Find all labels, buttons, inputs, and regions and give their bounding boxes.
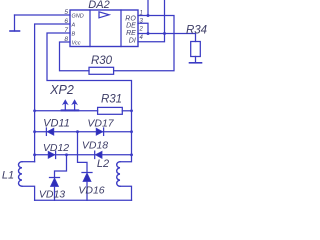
wire DE bbox=[138, 23, 148, 33]
node R31-B bbox=[130, 109, 133, 112]
svg-text:DA2: DA2 bbox=[88, 0, 109, 11]
svg-text:8: 8 bbox=[64, 36, 68, 43]
svg-text:A: A bbox=[71, 23, 76, 29]
svg-text:1: 1 bbox=[140, 10, 143, 16]
wire R34 bottom bbox=[195, 57, 197, 63]
svg-text:L1: L1 bbox=[2, 169, 14, 181]
svg-text:VD13: VD13 bbox=[39, 188, 65, 200]
svg-text:VD16: VD16 bbox=[78, 184, 104, 196]
connector XP2 pin2 bbox=[71, 99, 78, 111]
wire RE bbox=[138, 34, 196, 42]
svg-text:Vcc: Vcc bbox=[72, 41, 81, 47]
node B-VD17 bbox=[130, 130, 133, 133]
svg-text:2: 2 bbox=[139, 27, 144, 33]
wire pin Vcc bbox=[60, 42, 90, 71]
wire pin B bbox=[47, 33, 132, 155]
svg-text:GND: GND bbox=[72, 14, 84, 20]
IC DA2 RS-485 transceiver bbox=[70, 10, 138, 47]
wire R30 right bbox=[114, 16, 174, 71]
svg-text:4: 4 bbox=[140, 35, 144, 41]
svg-text:RE: RE bbox=[126, 30, 136, 37]
svg-text:L2: L2 bbox=[97, 158, 109, 170]
svg-text:R30: R30 bbox=[91, 55, 113, 67]
node mid VD11-VD17 bbox=[76, 130, 79, 133]
svg-text:VD11: VD11 bbox=[43, 118, 70, 130]
node A-XP2 bbox=[33, 109, 36, 112]
resistor R30 bbox=[89, 67, 114, 74]
diode VD17 bbox=[96, 128, 103, 135]
wire VD11 row bbox=[35, 131, 132, 133]
svg-text:R34: R34 bbox=[186, 25, 207, 37]
svg-text:6: 6 bbox=[64, 18, 68, 25]
wire GND pin5 bbox=[15, 14, 71, 16]
inductor L2 bbox=[117, 155, 132, 201]
svg-text:VD17: VD17 bbox=[87, 118, 114, 130]
ground R34 bbox=[190, 62, 202, 64]
resistor R31 bbox=[98, 107, 123, 114]
inductor L1 bbox=[18, 162, 34, 201]
diode VD11 bbox=[46, 128, 53, 135]
ground bbox=[10, 15, 20, 31]
wire bottom rail bbox=[35, 199, 132, 201]
node RE-riser bbox=[163, 32, 166, 35]
svg-text:R31: R31 bbox=[101, 94, 122, 106]
svg-text:XP2: XP2 bbox=[49, 83, 74, 97]
node A-VD12 bbox=[33, 153, 36, 156]
wire VD13 link bbox=[55, 155, 67, 178]
svg-text:DI: DI bbox=[129, 38, 136, 45]
node RO bbox=[147, 14, 150, 17]
resistor R34 bbox=[191, 42, 201, 57]
node VD18-L2 bbox=[130, 153, 133, 156]
wire RO riser bbox=[147, 0, 149, 16]
wire VD12 row bbox=[35, 154, 132, 156]
diode VD12 bbox=[48, 151, 55, 158]
svg-text:RO: RO bbox=[125, 15, 136, 22]
node A-VD11 bbox=[33, 130, 36, 133]
wire VD13 anode bbox=[54, 187, 56, 201]
svg-text:7: 7 bbox=[64, 27, 68, 34]
diode VD16 bbox=[82, 173, 92, 182]
node VD12-VD13 bbox=[65, 153, 68, 156]
svg-text:VD12: VD12 bbox=[43, 142, 69, 154]
connector XP2 pin1 bbox=[62, 99, 69, 111]
wire R31 right bbox=[122, 110, 131, 112]
svg-text:5: 5 bbox=[64, 9, 68, 16]
wire pin A bbox=[35, 24, 70, 162]
wire VD16 anode bbox=[86, 182, 88, 201]
diode VD13 bbox=[50, 178, 60, 187]
wire XP2 row bbox=[35, 110, 98, 112]
node DE-RE bbox=[147, 32, 150, 35]
svg-text:DE: DE bbox=[126, 23, 136, 30]
svg-text:B: B bbox=[72, 32, 76, 38]
wire DI bbox=[138, 0, 165, 42]
wire VD16 link bbox=[78, 132, 88, 173]
diode VD18 bbox=[95, 151, 102, 158]
svg-text:VD18: VD18 bbox=[82, 140, 108, 152]
